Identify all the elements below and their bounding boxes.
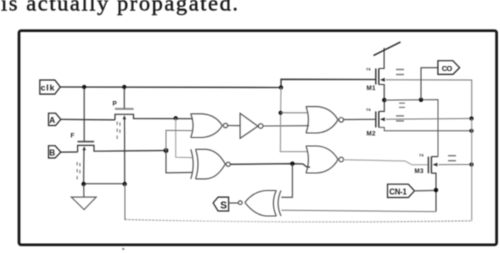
wire B branch up to NOR1 lower input: [166, 130, 192, 150]
junction ground rail left: [81, 182, 85, 186]
junction B branch: [164, 148, 169, 153]
input tag clk: [40, 80, 61, 94]
NOR gate U4 (clk, U2): [306, 107, 344, 133]
precharge bus vertical from clk: [280, 88, 308, 152]
svg-text:clk: clk: [41, 83, 55, 93]
ground symbol triangle: [71, 197, 96, 210]
input tag A: [49, 113, 61, 125]
output tag CO: [438, 61, 460, 75]
NOR gate U1 (A,B): [191, 114, 228, 138]
gnd return wire bottom: [125, 220, 472, 222]
junction clk/precharge-bus: [279, 85, 283, 89]
P2 W/L value label (rotated): [77, 162, 81, 179]
XNOR gate U3 (A,B): [191, 149, 230, 179]
svg-text:B: B: [49, 148, 55, 157]
svg-text:is actually propagated.: is actually propagated.: [1, 0, 238, 16]
wire carry node to M3 drain: [384, 100, 438, 157]
transistor M1 bulk arrow: [380, 78, 385, 82]
P1 W/L value label (rotated): [117, 122, 121, 139]
transistor M2 channel: [378, 111, 380, 127]
svg-text:M1: M1: [367, 85, 377, 92]
transistor M3 channel: [430, 157, 432, 174]
svg-text:A: A: [49, 116, 55, 125]
junction Cn-1 / M3 source: [434, 188, 438, 192]
svg-text:P: P: [113, 101, 118, 108]
svg-text:74: 74: [419, 152, 424, 157]
gnd bus vertical right: [471, 119, 473, 221]
M2 W/L label: [396, 103, 405, 122]
wire A to pass transistor: [61, 118, 115, 121]
svg-text:F: F: [71, 133, 75, 140]
transistor M2 drain stub: [379, 100, 385, 111]
junction precharge bus / U4 input: [279, 111, 283, 115]
output tag S: [213, 197, 229, 211]
wire bus to U4 top input: [281, 112, 308, 114]
junction gnd bus / M2 source: [469, 129, 473, 133]
wire U4 output to M2 gate: [344, 118, 376, 120]
svg-text:M3: M3: [415, 168, 425, 175]
wire A branch down to XNOR1 top input: [176, 118, 193, 157]
junction clk/B-gate: [82, 85, 86, 89]
wire M3 bulk to gnd bus: [438, 164, 471, 166]
wire U6 lower input from M3 source: [281, 210, 436, 211]
wire M1 bulk to gnd bus: [386, 80, 472, 119]
junction A/NOR1 branch: [174, 116, 178, 120]
wire clk horizontal: [60, 79, 376, 87]
wire U3 output to NOR U5 lower input: [230, 164, 310, 168]
ground rail wire: [84, 183, 125, 185]
transistor M1 source stub: [379, 85, 384, 101]
pass transistor P2 gate stem: [83, 87, 85, 141]
svg-text:S: S: [220, 201, 227, 212]
wire U2 output to NOR U4 lower input: [263, 125, 309, 127]
junction U3-output / sum branch: [290, 162, 294, 166]
pass transistor P1 gate stem: [123, 87, 125, 109]
input tag B: [49, 146, 61, 158]
wire U1 output to inverter: [228, 125, 240, 127]
wire sum branch down to XNOR U6: [281, 164, 292, 198]
svg-text:74: 74: [366, 107, 371, 112]
svg-text:CN-1: CN-1: [389, 187, 407, 196]
junction ground rail right: [123, 182, 127, 186]
carry node junction M1/M2: [382, 98, 386, 102]
input tag Cn-1: [388, 184, 415, 197]
pass transistor P1 channel (A): [115, 114, 193, 120]
svg-text:CO: CO: [442, 64, 453, 73]
ground symbol stem: [83, 184, 85, 197]
VDD slash: [374, 42, 401, 56]
wire Cn-1 to M3 source: [415, 189, 437, 192]
caption speck below frame: [122, 248, 125, 250]
pass transistor P1 bulk stem to ground rail: [124, 119, 126, 184]
junction carry/CO: [419, 98, 423, 102]
junction gnd bus / M3 bulk: [469, 162, 473, 166]
transistor M1 gate plate: [375, 69, 377, 85]
inverter U2: [240, 113, 263, 138]
transistor M3 drain stub: [431, 156, 438, 158]
wire M2 bulk to gnd bus: [386, 118, 472, 121]
wire S tag to U6 bubble: [229, 202, 238, 204]
NOR gate U5 (clk, U3): [306, 146, 344, 173]
pass transistor P2 gate plate: [78, 141, 95, 143]
transistor M3 bulk arrow: [433, 163, 438, 167]
pass transistor P2 bulk arrow: [83, 146, 86, 150]
transistor M2 bulk arrow: [380, 117, 385, 121]
pass transistor P2 bulk stem to ground rail: [83, 150, 85, 184]
M1 W/L label: [396, 69, 404, 75]
pass transistor P1 bulk arrow: [123, 115, 126, 119]
pass transistor P2 channel (B): [78, 145, 166, 152]
transistor M1 channel: [378, 69, 380, 85]
M3 W/L label: [448, 155, 456, 161]
wire B branch down to XNOR1 lower input: [166, 151, 193, 173]
junction clk/A-gate: [122, 85, 126, 89]
transistor M2 gate plate: [375, 111, 377, 127]
svg-text:M2: M2: [367, 131, 377, 138]
wire B to pass transistor: [61, 151, 78, 153]
wire CO tag: [421, 68, 438, 100]
transistor M2 source stub: [379, 127, 472, 130]
transistor M3 gate plate: [427, 157, 429, 174]
pass transistor P1 gate plate: [115, 108, 134, 110]
junction gnd bus / M2 bulk: [469, 116, 473, 120]
transistor M3 source stub: [431, 173, 436, 211]
transistor M1 drain stub to VDD: [379, 48, 384, 69]
wire U5 output to M3 gate: [344, 160, 429, 165]
XNOR gate U6 (sum, mirrored): [238, 191, 281, 217]
svg-text:74: 74: [366, 67, 371, 72]
